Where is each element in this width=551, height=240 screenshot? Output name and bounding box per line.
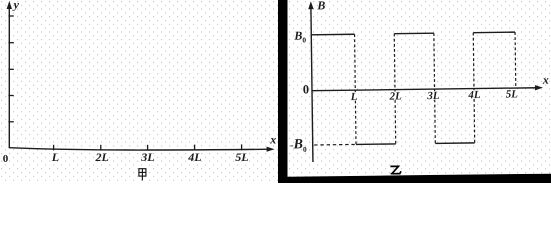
dashed leader -B0	[314, 143, 355, 146]
right B-axis arrowhead	[308, 1, 314, 9]
caption yi (乙) drawn as strokes	[390, 166, 401, 173]
wave top segment 0 to L	[311, 33, 354, 36]
svg-text:0: 0	[303, 82, 309, 96]
left y-axis tick 5	[8, 121, 13, 123]
svg-text:y: y	[12, 0, 20, 12]
black divider bar	[278, 0, 288, 183]
left y-axis tick 4	[8, 95, 13, 97]
svg-text:3L: 3L	[426, 90, 440, 102]
right x-axis	[312, 88, 538, 91]
right x-axis arrowhead	[535, 85, 543, 90]
dashed vertical at 2L	[394, 34, 395, 144]
svg-text:x: x	[542, 73, 549, 87]
svg-text:4L: 4L	[187, 150, 201, 164]
svg-text:4L: 4L	[467, 89, 481, 101]
black bottom bar	[288, 174, 551, 183]
right B-axis	[311, 4, 313, 162]
svg-text:3L: 3L	[140, 150, 154, 164]
left y-axis tick 2	[8, 42, 13, 44]
left tick 4L	[194, 145, 196, 151]
wave top segment 2L to 3L	[394, 32, 434, 35]
dashed vertical at 3L	[434, 33, 435, 143]
left tick 3L	[147, 145, 149, 151]
left y-axis	[8, 4, 10, 148]
svg-text:B: B	[316, 0, 325, 12]
left tick 5L	[241, 144, 243, 150]
right tick label 3L	[426, 91, 440, 100]
svg-text:x: x	[269, 132, 276, 146]
wave top segment 4L to 5L	[473, 31, 515, 34]
svg-text:0: 0	[3, 153, 9, 165]
svg-text:5L: 5L	[235, 150, 248, 164]
left x-axis arrowhead	[267, 147, 275, 152]
left y-axis arrowhead	[7, 1, 12, 9]
right plot group (slightly rotated like the scan)	[288, 0, 550, 162]
right tick label 5L	[505, 89, 520, 98]
svg-text:2L: 2L	[95, 150, 109, 164]
dashed vertical at L	[355, 34, 356, 144]
left x-axis	[9, 148, 270, 150]
svg-text:5L: 5L	[506, 88, 519, 100]
left y-axis tick 1	[8, 15, 13, 17]
right tick label L	[349, 92, 358, 101]
right tick label 2L	[389, 91, 403, 100]
left tick 2L	[100, 145, 102, 151]
left y-axis tick 3	[8, 68, 13, 70]
dashed vertical at 5L	[514, 32, 517, 88]
left tick L	[53, 145, 55, 151]
caption jia (甲) drawn as strokes	[139, 169, 146, 181]
svg-text:L: L	[350, 91, 358, 103]
wave bottom segment L to 2L	[356, 143, 396, 146]
dashed vertical at 4L	[473, 33, 474, 143]
wave bottom segment 3L to 4L	[435, 142, 474, 145]
svg-text:2L: 2L	[389, 90, 403, 102]
right tick label 4L	[467, 90, 482, 99]
svg-text:L: L	[51, 150, 59, 164]
